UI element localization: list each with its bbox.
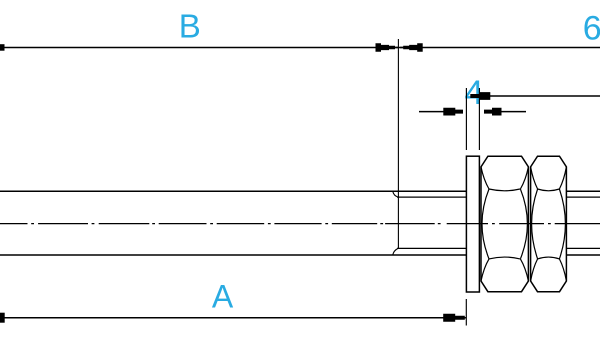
nut 1 outline bbox=[481, 156, 528, 292]
svg-text:A: A bbox=[212, 279, 234, 315]
nut 2 outline bbox=[531, 156, 567, 292]
thread runout arc top bbox=[393, 192, 398, 197]
dimension A left square end bbox=[0, 313, 5, 323]
dimension B line bbox=[0, 47, 398, 49]
dimension 4 right arrow bbox=[484, 108, 502, 116]
svg-text:B: B bbox=[179, 8, 201, 45]
rod outer bottom line bbox=[0, 254, 466, 256]
dimension 4 left tail bbox=[419, 111, 456, 113]
dimension 4 left arrow bbox=[443, 108, 463, 116]
washer bbox=[466, 156, 479, 292]
rod thread inner top line bbox=[397, 196, 466, 198]
rod thread inner bottom line bbox=[397, 247, 466, 249]
dimension A right arrow bbox=[443, 314, 465, 322]
leader arrow bbox=[470, 92, 490, 100]
dimension 6 left arrow bbox=[400, 43, 423, 51]
dimension 4 right tail bbox=[500, 111, 526, 113]
leader line right of 4 bbox=[472, 95, 600, 97]
dimension 6 line bbox=[398, 47, 600, 49]
thread runout arc bottom bbox=[393, 249, 398, 255]
rod outer top line bbox=[0, 190, 466, 192]
dimension B extension line bbox=[397, 39, 399, 249]
dimension A extension line bbox=[465, 299, 467, 326]
centerline bbox=[0, 223, 600, 225]
dimension B right arrow bbox=[376, 43, 399, 51]
dimension 4 left extension line bbox=[465, 88, 467, 150]
dimension A line bbox=[0, 317, 466, 319]
nut 2 facet curves bbox=[531, 167, 567, 281]
dimension 4 right extension line bbox=[478, 88, 480, 150]
svg-text:6: 6 bbox=[583, 9, 600, 47]
nut 1 facet curves bbox=[481, 167, 528, 281]
dimension B left square end bbox=[0, 44, 5, 51]
